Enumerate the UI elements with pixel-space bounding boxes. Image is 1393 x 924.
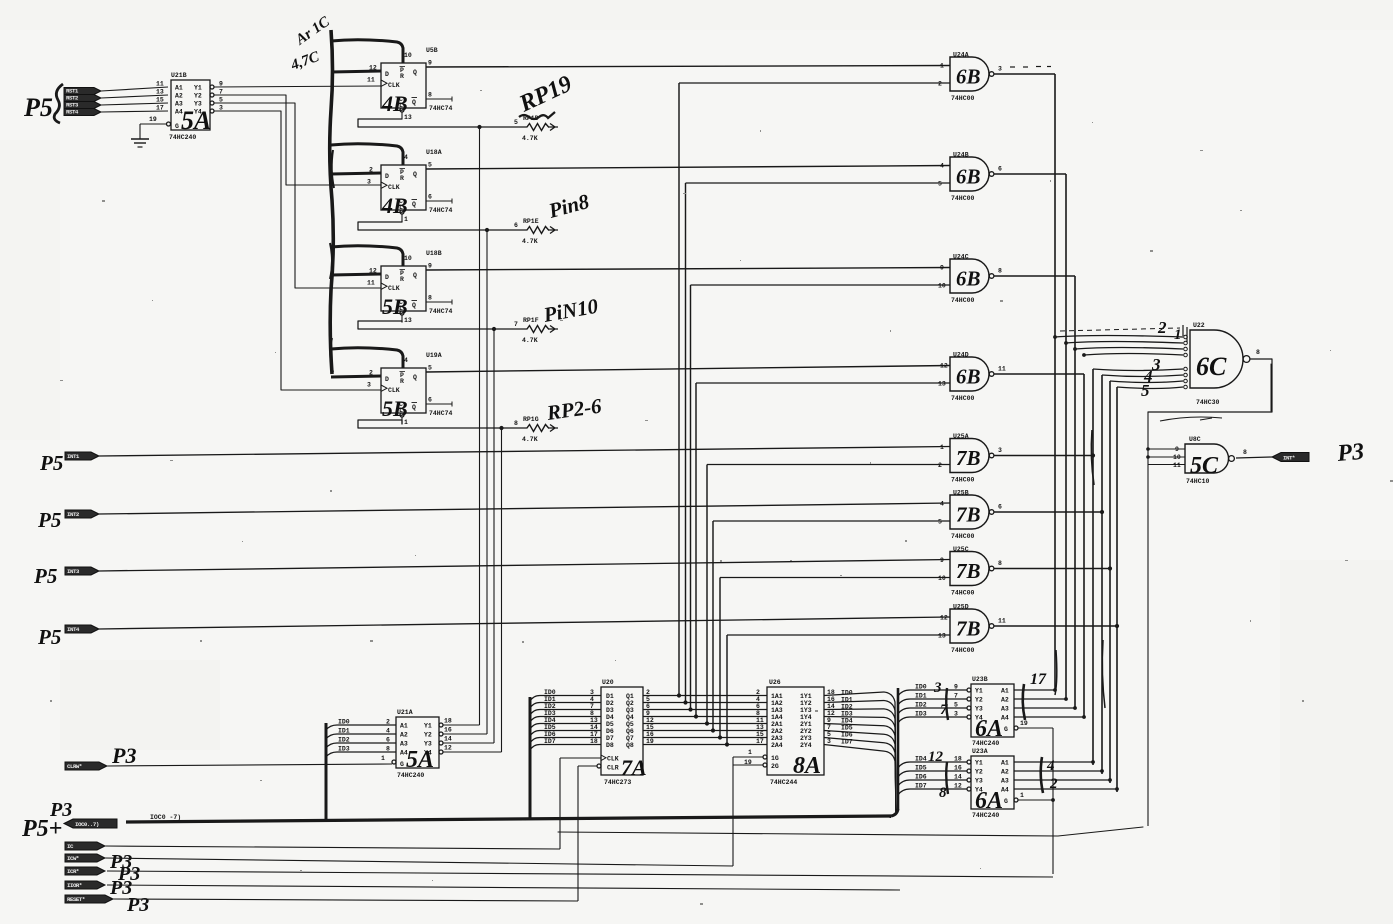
- svg-text:A1: A1: [1001, 760, 1009, 767]
- wire ICR to U23 enables: [1018, 728, 1055, 874]
- svg-text:2: 2: [1157, 318, 1167, 337]
- svg-text:U26: U26: [769, 679, 781, 686]
- stray dashes: [1010, 66, 1051, 69]
- svg-text:ID2: ID2: [544, 703, 556, 710]
- svg-text:2A4: 2A4: [771, 742, 783, 749]
- svg-text:17: 17: [1030, 671, 1047, 688]
- svg-text:9: 9: [428, 263, 432, 270]
- svg-text:16: 16: [646, 731, 654, 738]
- svg-text:12: 12: [827, 710, 835, 717]
- svg-text:ID7: ID7: [544, 738, 556, 745]
- svg-text:U22: U22: [1193, 322, 1205, 329]
- wire gate output net 8 on right bus: [994, 387, 1119, 792]
- wire resistor net down to U21A Y2: [486, 230, 488, 734]
- wire FF clear net to resistor RP1G: [358, 420, 527, 430]
- svg-text:5B: 5B: [382, 294, 408, 319]
- svg-text:6B: 6B: [956, 267, 981, 291]
- svg-text:15: 15: [646, 724, 654, 731]
- svg-text:ID3: ID3: [338, 746, 350, 753]
- svg-text:U24A: U24A: [953, 52, 969, 59]
- svg-text:17: 17: [590, 731, 598, 738]
- svg-text:74HC00: 74HC00: [951, 477, 975, 484]
- svg-text:D3: D3: [606, 707, 614, 714]
- svg-text:D: D: [385, 376, 389, 383]
- svg-text:Y3: Y3: [975, 778, 983, 785]
- svg-text:4.7K: 4.7K: [522, 135, 538, 142]
- svg-text:2A2: 2A2: [771, 728, 783, 735]
- svg-text:Q7: Q7: [626, 735, 634, 742]
- wire U8C output to INTA: [1236, 457, 1272, 458]
- handwritten annotation 4.7K pull-up: [288, 13, 334, 74]
- svg-text:ID6: ID6: [841, 731, 853, 738]
- svg-text:1: 1: [404, 216, 408, 223]
- dashed pencil line above U22: [1060, 328, 1180, 331]
- svg-text:Q: Q: [412, 302, 416, 309]
- wire ICW: [105, 858, 733, 866]
- wire U21B Y3 to U18B CLK: [214, 103, 381, 288]
- svg-text:RST4: RST4: [66, 109, 79, 116]
- svg-text:Y2: Y2: [424, 732, 432, 739]
- svg-text:74HC00: 74HC00: [951, 647, 975, 654]
- svg-text:D7: D7: [606, 735, 614, 742]
- wire FF clear net to resistor RP1F: [358, 321, 527, 331]
- svg-text:9: 9: [827, 717, 831, 724]
- svg-text:13: 13: [156, 89, 164, 96]
- svg-text:CLK: CLK: [388, 285, 400, 292]
- svg-text:15: 15: [756, 731, 764, 738]
- flip-flop U18B 74HC74: [367, 250, 453, 324]
- svg-text:INT2: INT2: [67, 511, 80, 518]
- svg-text:2Y2: 2Y2: [800, 728, 812, 735]
- svg-text:P3: P3: [1335, 439, 1365, 467]
- svg-text:5: 5: [428, 162, 432, 169]
- svg-text:4: 4: [386, 728, 390, 735]
- svg-text:6: 6: [998, 166, 1002, 173]
- svg-text:3: 3: [590, 689, 594, 696]
- svg-text:ID1: ID1: [544, 696, 556, 703]
- wire mask bit Q3 to gate second input: [688, 285, 950, 712]
- svg-text:13: 13: [938, 381, 946, 388]
- svg-text:10: 10: [938, 283, 946, 290]
- svg-text:A2: A2: [400, 732, 408, 739]
- svg-text:11: 11: [1173, 462, 1181, 469]
- svg-text:Q: Q: [413, 69, 417, 76]
- svg-text:12: 12: [369, 65, 377, 72]
- svg-text:4: 4: [404, 357, 408, 364]
- svg-text:5: 5: [428, 365, 432, 372]
- svg-text:74HC74: 74HC74: [429, 410, 453, 417]
- svg-text:2G: 2G: [771, 763, 779, 770]
- wire FF Q output to U24D input: [426, 366, 950, 373]
- svg-text:1A3: 1A3: [771, 707, 783, 714]
- svg-text:1G: 1G: [771, 755, 779, 762]
- ground: [131, 124, 167, 147]
- svg-text:6: 6: [998, 504, 1002, 511]
- svg-text:ID2: ID2: [841, 703, 853, 710]
- svg-text:74HC240: 74HC240: [397, 772, 424, 779]
- svg-text:IOC0 -7): IOC0 -7): [150, 814, 181, 821]
- svg-text:3: 3: [998, 66, 1002, 73]
- svg-text:2: 2: [386, 719, 390, 726]
- svg-text:D4: D4: [606, 714, 614, 721]
- svg-text:13: 13: [590, 717, 598, 724]
- svg-text:3: 3: [998, 447, 1002, 454]
- svg-text:74HC00: 74HC00: [951, 590, 975, 597]
- wire mask bit Q5 to gate second input: [705, 465, 950, 726]
- wire FF clear net to resistor RP1E: [358, 221, 527, 232]
- svg-text:Q: Q: [413, 374, 417, 381]
- svg-text:12: 12: [444, 745, 452, 752]
- svg-text:Y2: Y2: [975, 769, 983, 776]
- svg-text:A3: A3: [1001, 706, 1009, 713]
- resistor RP1G 4.7K: [514, 393, 603, 443]
- nand gate U25C 74HC00: [938, 546, 1002, 597]
- svg-text:10: 10: [404, 52, 412, 59]
- wire preset loop from pull-up net: [331, 348, 403, 368]
- svg-text:1: 1: [940, 444, 944, 451]
- wire FF Q output to U24B input: [426, 166, 950, 170]
- nand gate U24D 74HC00: [938, 352, 1006, 403]
- svg-text:9: 9: [646, 710, 650, 717]
- connector P3 IIOR*: [65, 877, 132, 899]
- svg-text:P5: P5: [37, 625, 61, 649]
- svg-text:P3: P3: [126, 894, 149, 916]
- svg-text:4: 4: [940, 163, 944, 170]
- svg-text:2: 2: [369, 370, 373, 377]
- svg-text:IIOR*: IIOR*: [67, 882, 82, 889]
- wires right bus into U22 inputs: [1053, 335, 1187, 389]
- svg-text:Y2: Y2: [975, 697, 983, 704]
- handwritten pin notes at U23 inputs: [928, 680, 948, 801]
- wire FF clear net to resistor RP1D: [358, 119, 527, 129]
- svg-text:74HC30: 74HC30: [1196, 399, 1220, 406]
- svg-text:12: 12: [646, 717, 654, 724]
- wire U21B Y2 to U18A CLK: [214, 95, 381, 185]
- nand gate U24B 74HC00: [938, 152, 1002, 203]
- svg-text:19: 19: [1020, 720, 1028, 727]
- buffer U26 74HC244: [744, 679, 824, 786]
- svg-text:CLR: CLR: [607, 765, 619, 772]
- svg-text:A1: A1: [1001, 688, 1009, 695]
- svg-text:6: 6: [386, 737, 390, 744]
- svg-text:D1: D1: [606, 693, 614, 700]
- svg-text:6: 6: [646, 703, 650, 710]
- svg-text:18: 18: [590, 738, 598, 745]
- svg-text:2: 2: [756, 689, 760, 696]
- svg-text:RST3: RST3: [66, 102, 79, 109]
- svg-text:INT*: INT*: [1283, 455, 1295, 462]
- connector P5 INT1: [39, 451, 99, 475]
- svg-text:ICW*: ICW*: [67, 855, 79, 862]
- svg-text:P5: P5: [37, 508, 61, 532]
- svg-text:D6: D6: [606, 728, 614, 735]
- svg-text:5: 5: [827, 731, 831, 738]
- svg-text:ID1: ID1: [841, 696, 853, 703]
- svg-text:A1: A1: [400, 723, 408, 730]
- wire U22 output: [1250, 358, 1272, 360]
- svg-text:7A: 7A: [621, 755, 647, 780]
- wire gate output net 7 on right bus: [994, 381, 1112, 783]
- svg-text:9: 9: [940, 557, 944, 564]
- svg-text:ID1: ID1: [338, 728, 350, 735]
- svg-text:74HC00: 74HC00: [951, 533, 975, 540]
- wires U26 outputs merge into IO bus: [824, 689, 896, 812]
- wire INT3 to U25C: [99, 560, 950, 572]
- wires IO bus to U20 D inputs: [530, 689, 601, 818]
- wire preset loop from pull-up net: [331, 246, 403, 266]
- svg-text:R: R: [400, 276, 404, 283]
- svg-text:74HC00: 74HC00: [951, 95, 975, 102]
- svg-text:ID0: ID0: [841, 689, 853, 696]
- wire ICW to U26 enables: [733, 757, 763, 866]
- svg-text:U25C: U25C: [953, 546, 969, 553]
- buffer U21B 74HC240: [149, 72, 223, 141]
- svg-text:G: G: [1004, 726, 1008, 733]
- svg-text:74HC10: 74HC10: [1186, 478, 1210, 485]
- wire preset loop from pull-up net: [331, 144, 403, 165]
- svg-text:5B: 5B: [382, 396, 408, 421]
- svg-text:6: 6: [756, 703, 760, 710]
- svg-text:RP1G: RP1G: [523, 416, 539, 423]
- svg-text:8: 8: [386, 746, 390, 753]
- svg-text:7: 7: [514, 321, 518, 328]
- svg-text:5: 5: [938, 181, 942, 188]
- svg-text:INT3: INT3: [67, 568, 80, 575]
- svg-text:Q1: Q1: [626, 693, 634, 700]
- svg-text:CLK: CLK: [388, 184, 400, 191]
- svg-text:RP1F: RP1F: [523, 317, 539, 324]
- svg-text:3: 3: [367, 179, 371, 186]
- svg-text:6B: 6B: [956, 365, 981, 389]
- svg-text:IOC0..7): IOC0..7): [75, 821, 99, 828]
- wire gate output net 2 on right bus: [994, 174, 1066, 699]
- svg-text:7: 7: [590, 703, 594, 710]
- svg-text:A1: A1: [175, 85, 183, 92]
- wire mask bit Q1 to gate second input: [677, 83, 950, 698]
- svg-text:3: 3: [827, 738, 831, 745]
- svg-text:6: 6: [428, 397, 432, 404]
- resistor RP1D 4.7K: [514, 71, 576, 142]
- svg-text:13: 13: [404, 114, 412, 121]
- svg-text:5A: 5A: [406, 747, 434, 773]
- svg-text:13: 13: [756, 724, 764, 731]
- svg-text:P5: P5: [33, 564, 57, 588]
- wire gate output net 1 on right bus: [994, 74, 1055, 690]
- svg-text:Q4: Q4: [626, 714, 634, 721]
- svg-text:RESET*: RESET*: [67, 896, 85, 903]
- wire resistor net down to U21A Y4: [501, 428, 503, 752]
- svg-text:11: 11: [156, 81, 164, 88]
- svg-text:14: 14: [590, 724, 598, 731]
- svg-text:IC: IC: [67, 843, 74, 850]
- svg-text:P5+: P5+: [21, 816, 62, 842]
- svg-text:7: 7: [827, 724, 831, 731]
- svg-text:5A: 5A: [181, 106, 211, 135]
- svg-text:CLK: CLK: [388, 82, 400, 89]
- nand gate U25D 74HC00: [938, 604, 1006, 655]
- svg-text:1A4: 1A4: [771, 714, 783, 721]
- bus riser to U23 inputs: [897, 688, 900, 810]
- svg-text:Q: Q: [413, 272, 417, 279]
- svg-text:5: 5: [1141, 381, 1150, 400]
- svg-text:RST2: RST2: [66, 95, 79, 102]
- svg-text:14: 14: [827, 703, 835, 710]
- svg-text:R: R: [400, 175, 404, 182]
- svg-text:12: 12: [369, 268, 377, 275]
- wire INT4 to U25D: [99, 617, 950, 629]
- wire bottom return to U8C net: [558, 827, 1143, 836]
- wire D input from pull-up net: [331, 376, 381, 377]
- wire D input from pull-up net: [331, 173, 381, 174]
- svg-text:11: 11: [998, 618, 1006, 625]
- svg-text:10: 10: [1173, 454, 1181, 461]
- svg-text:U25A: U25A: [953, 433, 969, 440]
- svg-text:15: 15: [156, 97, 164, 104]
- svg-text:10: 10: [404, 255, 412, 262]
- svg-text:12: 12: [940, 363, 948, 370]
- svg-text:U21A: U21A: [397, 709, 413, 716]
- svg-text:74HC240: 74HC240: [169, 134, 196, 141]
- svg-text:4: 4: [940, 501, 944, 508]
- wires IO bus to U23 inputs: [898, 690, 967, 795]
- svg-text:ID3: ID3: [544, 710, 556, 717]
- svg-text:2A3: 2A3: [771, 735, 783, 742]
- svg-text:5C: 5C: [1190, 453, 1219, 479]
- svg-text:1: 1: [1020, 792, 1024, 799]
- svg-text:D: D: [385, 71, 389, 78]
- svg-text:2: 2: [938, 81, 942, 88]
- connector P5 INT2: [37, 508, 99, 532]
- svg-text:9: 9: [1175, 446, 1179, 453]
- wires U20 Q outputs to U26 inputs: [643, 689, 767, 745]
- svg-text:ID5: ID5: [841, 724, 853, 731]
- wire mask bit Q2 to gate second input: [683, 183, 950, 705]
- wire FF Q output to U24C input: [426, 268, 950, 271]
- wires IO bus to U21A inputs: [326, 719, 396, 758]
- svg-text:A2: A2: [1001, 697, 1009, 704]
- wires RST1-4 to U21B: [101, 81, 168, 113]
- wire D input from pull-up net: [331, 274, 381, 275]
- svg-text:18: 18: [827, 689, 835, 696]
- svg-text:Y1: Y1: [975, 688, 983, 695]
- svg-text:D5: D5: [606, 721, 614, 728]
- svg-text:U24D: U24D: [953, 352, 969, 359]
- wire mask bit Q7 to gate second input: [718, 578, 950, 740]
- svg-text:INT1: INT1: [67, 453, 80, 460]
- svg-text:ID4: ID4: [841, 717, 853, 724]
- svg-text:7B: 7B: [956, 559, 981, 583]
- svg-text:U8C: U8C: [1189, 436, 1201, 443]
- svg-text:Y3: Y3: [975, 706, 983, 713]
- svg-text:6: 6: [428, 194, 432, 201]
- svg-text:U19A: U19A: [426, 352, 442, 359]
- nand gate U22 74HC30: [1190, 322, 1260, 406]
- svg-text:P3: P3: [111, 743, 136, 768]
- svg-text:3: 3: [933, 680, 942, 696]
- svg-text:Q: Q: [412, 201, 416, 208]
- svg-text:Q: Q: [412, 99, 416, 106]
- svg-text:8: 8: [590, 710, 594, 717]
- svg-text:8: 8: [428, 92, 432, 99]
- svg-text:ID3: ID3: [841, 710, 853, 717]
- svg-text:4: 4: [1046, 758, 1055, 774]
- connector P5 INT4: [37, 625, 99, 649]
- svg-text:11: 11: [756, 717, 764, 724]
- wire mask bit Q4 to gate second input: [694, 383, 950, 719]
- handwritten P5 label and brace: [23, 84, 63, 123]
- svg-text:Y2: Y2: [194, 93, 202, 100]
- svg-text:6B: 6B: [956, 165, 981, 189]
- flip-flop U18A 74HC74: [367, 149, 453, 223]
- svg-text:ID2: ID2: [338, 737, 350, 744]
- svg-text:RST1: RST1: [66, 88, 79, 95]
- wire mask bit Q6 to gate second input: [711, 521, 950, 733]
- resistor RP1F 4.7K: [514, 294, 600, 344]
- svg-text:ICR*: ICR*: [67, 868, 79, 875]
- svg-text:P5: P5: [23, 93, 53, 122]
- buffer U23B 74HC240: [915, 676, 1028, 747]
- svg-text:1Y1: 1Y1: [800, 693, 812, 700]
- svg-text:4.7K: 4.7K: [522, 337, 538, 344]
- wire resistor net down to U21A Y1: [479, 127, 481, 725]
- svg-text:8: 8: [998, 268, 1002, 275]
- connector P5 INT3: [33, 564, 99, 588]
- connector P5 RST1-RST4: [64, 88, 101, 116]
- svg-text:17: 17: [756, 738, 764, 745]
- svg-text:18: 18: [444, 718, 452, 725]
- svg-text:8A: 8A: [793, 753, 821, 779]
- wire FF Q output to U24A input: [426, 66, 950, 68]
- wire RESET to U20 CLR: [578, 764, 601, 901]
- svg-text:Q8: Q8: [626, 742, 634, 749]
- svg-text:U24B: U24B: [953, 152, 969, 159]
- svg-text:1: 1: [940, 63, 944, 70]
- svg-text:CLK: CLK: [607, 756, 619, 763]
- svg-text:U20: U20: [602, 679, 614, 686]
- wire U21B Y4 to U19A CLK: [214, 111, 381, 390]
- hand overdraw on bus verticals: [1055, 430, 1105, 708]
- svg-text:6B: 6B: [956, 65, 981, 89]
- svg-text:Q5: Q5: [626, 721, 634, 728]
- svg-text:4: 4: [756, 696, 760, 703]
- wire resistor net down to U21A Y3: [493, 329, 495, 743]
- svg-text:5: 5: [514, 119, 518, 126]
- svg-text:CLRW*: CLRW*: [67, 763, 82, 770]
- svg-text:6A: 6A: [975, 716, 1003, 742]
- wire stubs above U22 pins: [1183, 325, 1187, 342]
- svg-text:74HC74: 74HC74: [429, 105, 453, 112]
- svg-text:6A: 6A: [975, 788, 1003, 814]
- svg-text:CLK: CLK: [388, 387, 400, 394]
- svg-text:7B: 7B: [956, 503, 981, 527]
- svg-text:U24C: U24C: [953, 254, 969, 261]
- svg-text:Y1: Y1: [424, 723, 432, 730]
- wires into U8C inputs: [1146, 447, 1185, 464]
- svg-text:ID7: ID7: [841, 738, 853, 745]
- svg-text:74HC74: 74HC74: [429, 308, 453, 315]
- svg-text:A2: A2: [175, 93, 183, 100]
- svg-text:1Y2: 1Y2: [800, 700, 812, 707]
- svg-text:8: 8: [428, 295, 432, 302]
- svg-text:U23B: U23B: [972, 676, 988, 683]
- wires U23B outputs to bus: [1014, 671, 1086, 720]
- svg-text:7B: 7B: [956, 617, 981, 641]
- svg-text:74HC244: 74HC244: [770, 779, 797, 786]
- svg-text:U25B: U25B: [953, 490, 969, 497]
- svg-text:1: 1: [404, 419, 408, 426]
- svg-text:14: 14: [444, 736, 452, 743]
- svg-text:D: D: [385, 274, 389, 281]
